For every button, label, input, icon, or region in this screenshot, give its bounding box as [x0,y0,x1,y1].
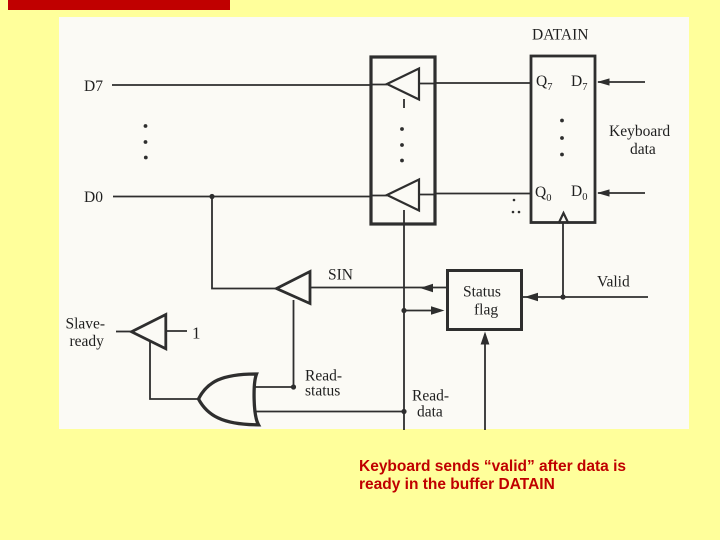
svg-text:Read-: Read- [412,388,449,405]
arrowhead up into status flag bottom [481,332,490,345]
arrowhead into status flag left [431,306,445,315]
svg-text:D7: D7 [84,78,103,95]
wire enable stub top buffer [403,99,405,108]
junction node read-status [291,384,296,389]
register DATAIN box [531,56,595,223]
wire SIN buffer enable [293,300,295,387]
label D0 [84,189,103,206]
scan mark [512,199,521,214]
wire read-data vertical enable line [403,210,405,430]
label Read-status [305,368,342,400]
junction node valid-clock [560,294,565,299]
label SIN [328,267,353,284]
white figure background [59,17,689,429]
buffer triangle bottom (D0) [387,180,419,211]
label D7 pin [571,73,587,93]
DATAIN clock caret [559,213,569,224]
label constant 1 [192,324,201,343]
label D7 [84,78,103,95]
label Keyboard data [609,123,670,158]
svg-text:status: status [305,383,340,400]
wire valid [523,296,648,298]
wire DATAIN clock [562,224,564,298]
wire constant 1 input [166,330,187,332]
arrowhead D7 keyboard [597,78,610,85]
label Status flag [463,284,501,319]
svg-text:flag: flag [474,302,498,319]
svg-text:ready: ready [70,333,105,350]
svg-text:Q0: Q0 [535,184,551,204]
junction node D0 [209,194,214,199]
slave-ready buffer [132,315,166,349]
svg-text:Status: Status [463,284,501,301]
junction node read-data [401,409,406,414]
arrowhead D0 keyboard [597,189,610,196]
wire D7 keyboard input [598,81,645,83]
svg-text:data: data [417,404,443,421]
SIN tri-state buffer [277,272,311,304]
svg-text:SIN: SIN [328,267,353,284]
label Slave-ready [66,316,106,351]
wire slave-ready output [116,331,132,333]
svg-text:data: data [630,141,656,158]
label DATAIN [532,27,588,44]
wire enable to status flag [404,310,441,312]
wire D0 keyboard input [598,192,645,194]
svg-text:DATAIN: DATAIN [532,27,588,44]
label Q0 pin [535,184,551,204]
wire D0 bus [113,194,530,197]
tri-state buffer box [371,57,435,224]
svg-text:Slave-: Slave- [66,316,106,333]
ellipsis bus left [144,124,148,159]
label D0 pin [571,183,587,203]
arrowhead SIN direction [420,284,433,293]
svg-text:Keyboard: Keyboard [609,123,670,140]
svg-text:Q7: Q7 [536,73,552,93]
wire D7 bus [112,83,530,85]
junction node enable [401,308,406,313]
label Read-data [412,388,449,421]
buffer triangle top (D7) [387,69,419,100]
wire status flag clear from below [484,334,486,430]
status flag box [448,271,522,330]
caption text [359,458,659,494]
label Q7 pin [536,73,552,93]
wire SIN output to status flag [310,287,446,289]
ellipsis DATAIN [560,119,564,157]
arrowhead valid into status flag [525,293,539,302]
label Valid [597,274,630,291]
svg-text:Valid: Valid [597,274,630,291]
wire OR output to read-status node [252,386,294,388]
OR gate [199,374,259,425]
wire D0 to SIN buffer [212,197,277,289]
svg-text:D0: D0 [84,189,103,206]
wire read-data horizontal [253,411,404,413]
svg-text:1: 1 [192,324,201,343]
svg-text:D7: D7 [571,73,587,93]
svg-text:D0: D0 [571,183,587,203]
wire slave buffer enable to OR gate [150,342,199,399]
red title bar [8,0,230,10]
ellipsis buffer box [400,127,404,162]
